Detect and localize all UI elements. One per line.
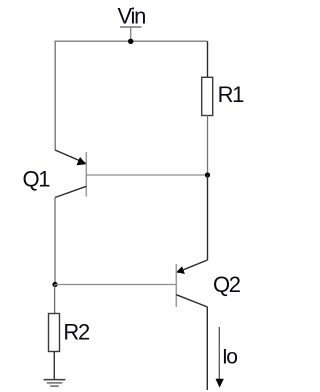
svg-text:R1: R1: [218, 82, 245, 107]
wire R2 to ground: [53, 352, 55, 380]
svg-text:Io: Io: [222, 345, 237, 368]
wire top rail: [55, 40, 208, 42]
current Io arrow line: [218, 327, 220, 380]
transistor Q2 emitter arrow: [176, 266, 185, 274]
wire Vin stub: [130, 27, 132, 41]
svg-text:Q2: Q2: [213, 272, 241, 297]
Vin terminal bar: [120, 26, 142, 28]
wire to R2: [54, 285, 56, 314]
transistor Q2 base bar: [175, 264, 177, 307]
current Io arrowhead: [216, 379, 224, 388]
wire left lower: [54, 198, 56, 285]
transistor Q2 emitter wire: [177, 260, 208, 272]
wire R1 to junction: [207, 116, 209, 176]
transistor Q1 base bar: [85, 152, 87, 197]
wire Q1 base lead: [86, 174, 207, 176]
ground: [44, 380, 66, 387]
resistor R2: [49, 314, 60, 352]
wire Q2 base lead: [55, 284, 176, 286]
junction dot right: [205, 172, 210, 177]
junction dot left: [52, 282, 57, 287]
transistor Q1 emitter wire: [55, 150, 86, 163]
resistor R1: [202, 77, 213, 115]
transistor Q1 collector wire: [55, 186, 86, 197]
svg-text:Q1: Q1: [23, 166, 51, 191]
svg-text:R2: R2: [63, 319, 90, 344]
wire left upper: [54, 41, 56, 150]
wire right upper: [207, 41, 209, 77]
transistor Q1 emitter arrow: [77, 157, 87, 165]
svg-text:Vin: Vin: [118, 3, 146, 28]
wire right lower: [206, 307, 208, 390]
transistor Q2 collector wire: [176, 295, 207, 307]
wire junction to Q2: [207, 175, 209, 260]
junction dot top: [128, 39, 133, 44]
